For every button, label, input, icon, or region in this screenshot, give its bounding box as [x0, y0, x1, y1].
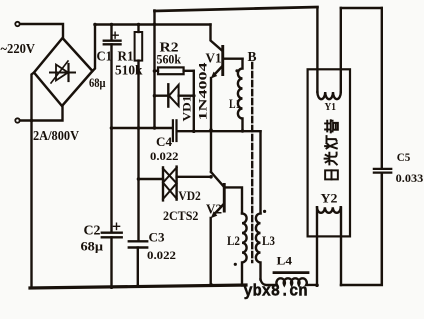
wire R1-C3 column	[137, 61, 139, 241]
wire V2 base	[226, 187, 242, 213]
wire V2 collector column	[210, 130, 212, 172]
terminal T2	[15, 118, 19, 122]
wire V1 base	[224, 58, 243, 60]
svg-text:C2: C2	[84, 223, 101, 238]
transistor V1	[211, 25, 223, 51]
wire plus rail	[95, 23, 211, 25]
wire C1-C2 column	[110, 44, 112, 232]
svg-text:~220V: ~220V	[1, 42, 36, 57]
inductor L4 core	[274, 271, 308, 274]
svg-text:L2: L2	[227, 234, 240, 248]
svg-text:1N4004: 1N4004	[196, 63, 210, 121]
svg-text:Y2: Y2	[321, 192, 338, 206]
bridge rectifier	[34, 38, 93, 106]
svg-text:2A/800V: 2A/800V	[33, 128, 79, 143]
polarity dot L2	[234, 263, 237, 266]
capacitor C2	[102, 231, 122, 233]
svg-text:C5: C5	[397, 150, 411, 164]
wire V1 emitter down	[210, 78, 212, 130]
svg-text:0.033: 0.033	[396, 171, 424, 185]
svg-text:B: B	[248, 49, 257, 64]
wire lamp right leg	[340, 208, 342, 285]
diac VD2	[139, 178, 164, 180]
glyphs 日光灯管	[325, 120, 338, 179]
inductor L2	[242, 213, 247, 285]
capacitor C1	[110, 25, 112, 41]
svg-text:560k: 560k	[157, 53, 182, 67]
wire lamp left leg	[316, 208, 318, 286]
wire V2 emitter down	[209, 218, 211, 286]
capacitor C3	[129, 240, 147, 242]
bottom rail	[30, 285, 246, 288]
svg-text:0.022: 0.022	[150, 149, 179, 163]
transistor V2	[211, 172, 223, 186]
wire	[20, 24, 63, 39]
wire top rail	[155, 7, 318, 11]
svg-text:V1: V1	[206, 51, 222, 66]
wire top right segment	[341, 7, 382, 9]
svg-text:R1: R1	[118, 49, 134, 64]
wire Y1 left leg	[316, 7, 318, 92]
capacitor C4	[172, 120, 174, 141]
wire column x194	[193, 71, 195, 132]
svg-text:0.022: 0.022	[147, 248, 176, 262]
wire L3 column	[259, 131, 261, 213]
filament Y2	[317, 207, 341, 213]
svg-text:L4: L4	[277, 254, 293, 268]
wire Y1 right leg	[340, 8, 342, 92]
svg-text:V2: V2	[206, 202, 222, 217]
svg-text:ybx8.cn: ybx8.cn	[244, 282, 308, 301]
lamp tube	[308, 69, 350, 236]
wire bridge plus up	[93, 25, 96, 72]
svg-text:VD2: VD2	[178, 188, 200, 203]
inductor L3	[256, 213, 261, 279]
svg-text:L1: L1	[229, 97, 241, 111]
wire bridge minus down	[32, 73, 35, 288]
svg-text:Y1: Y1	[325, 101, 337, 113]
wire mid left	[112, 127, 173, 129]
capacitor C5	[374, 168, 391, 170]
svg-text:C4: C4	[156, 135, 173, 149]
svg-text:L3: L3	[262, 234, 275, 248]
svg-text:VD1: VD1	[182, 95, 194, 121]
filament Y1	[317, 92, 340, 99]
transformer core	[251, 63, 253, 262]
resistor R1	[137, 25, 139, 33]
wire C5 bottom loop	[341, 173, 382, 285]
svg-text:2CTS2: 2CTS2	[163, 208, 198, 223]
resistor R2	[155, 70, 159, 72]
junction blobs	[32, 24, 318, 287]
wire mid right	[177, 130, 261, 132]
wire column x154	[153, 11, 155, 129]
svg-text:C1: C1	[97, 49, 113, 64]
svg-text:68μ: 68μ	[89, 76, 106, 90]
inductor L4	[261, 278, 317, 285]
wire	[20, 107, 63, 121]
inductor L1	[238, 59, 243, 131]
polarity dot L1	[235, 69, 238, 72]
terminal T1	[15, 22, 19, 26]
svg-text:68μ: 68μ	[81, 240, 104, 254]
wire C5 top column	[381, 8, 383, 168]
diode VD1	[155, 94, 169, 96]
polarity dot L3	[263, 210, 266, 213]
svg-text:C3: C3	[149, 231, 165, 245]
